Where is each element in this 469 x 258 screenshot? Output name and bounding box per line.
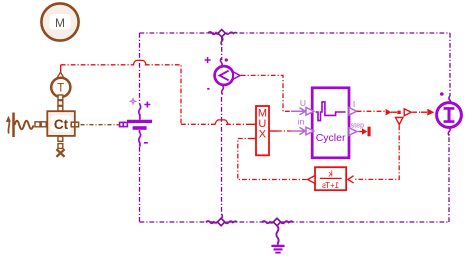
mid-wire arrow (386, 109, 392, 116)
wire voltage sensor top (221, 37, 223, 60)
heat flow arrow (6, 116, 11, 134)
battery B1 (voltage source) (127, 99, 152, 147)
squiggle above voltage sensor (220, 58, 222, 67)
svg-text:U: U (300, 98, 306, 108)
wire top rail (140, 32, 451, 34)
svg-text:1+Ts: 1+Ts (322, 181, 339, 190)
MUX in2 stub (249, 138, 256, 140)
squiggle below top junction (221, 37, 223, 45)
wire voltage sensor bottom (221, 97, 223, 218)
wire right rail top (449, 33, 451, 96)
wire Ct to battery heat port (brown dash-dot) (81, 124, 120, 126)
filter output pin (308, 176, 315, 184)
svg-text:T: T (57, 83, 64, 95)
junction node n1 (218, 30, 225, 37)
Ct bottom pins (58, 137, 63, 142)
MUX out wire to Cycler in (269, 130, 277, 132)
bottom junction node n3 (206, 214, 237, 226)
svg-text:Cycler: Cycler (316, 132, 346, 144)
controlled current source U3 (437, 92, 462, 135)
Ct left pins (35, 122, 40, 127)
squiggle top junction right (225, 32, 237, 34)
battery heat port pins (120, 122, 124, 126)
Ct right pin (71, 122, 75, 127)
thermal conductor wall and spring (14, 113, 34, 138)
wire voltage sensor to Cycler U (241, 75, 291, 111)
unconnected terminator X below Ct (56, 149, 64, 157)
branch arrow down (396, 117, 403, 124)
first order filter block (mirrored) (315, 167, 346, 190)
ground G1 (271, 226, 284, 253)
svg-text:I: I (353, 99, 355, 109)
svg-text:X: X (259, 129, 267, 141)
MUX block (256, 106, 269, 155)
voltage sensor U1 (205, 57, 240, 95)
arrow into in input (291, 127, 306, 134)
junction node n2 (397, 111, 400, 114)
wire bottom rail (140, 221, 450, 223)
arrow into U input (291, 108, 306, 115)
Cycler output pin step (349, 128, 357, 136)
wire Cycler I output to node (357, 110, 385, 112)
Cycler input pin in (306, 127, 314, 135)
wire battery top vertical (139, 33, 141, 104)
svg-text:in: in (298, 117, 305, 127)
wire T sensor output stub (60, 65, 62, 72)
pin chain T sensor to Ct (58, 95, 63, 100)
wire battery bottom vertical (139, 147, 141, 222)
wire feedback down and left (355, 125, 400, 179)
arrow into filter input (348, 176, 354, 183)
svg-text:M: M (55, 16, 65, 30)
squiggle top junction left (208, 32, 219, 34)
wire filter output to MUX in2 (238, 139, 307, 180)
Cycler block U2 (312, 88, 349, 158)
heat capacitor Ct (47, 111, 75, 136)
bottom junction node n4 (ground node) (262, 218, 293, 225)
svg-text:k: k (328, 169, 333, 179)
Cycler output pin I (349, 108, 357, 116)
ambient machine M1 (41, 3, 78, 40)
Cycler input pin U (306, 108, 314, 116)
terminator on step output (357, 127, 371, 137)
wire T sensor to MUX in1 (red dash-dot with hops) (61, 64, 135, 66)
wire right rail bottom (448, 133, 450, 222)
branch arrow right (404, 109, 411, 116)
wire to current source input (412, 111, 421, 113)
temperature sensor T1 (51, 72, 70, 97)
svg-text:Ct: Ct (54, 117, 69, 132)
